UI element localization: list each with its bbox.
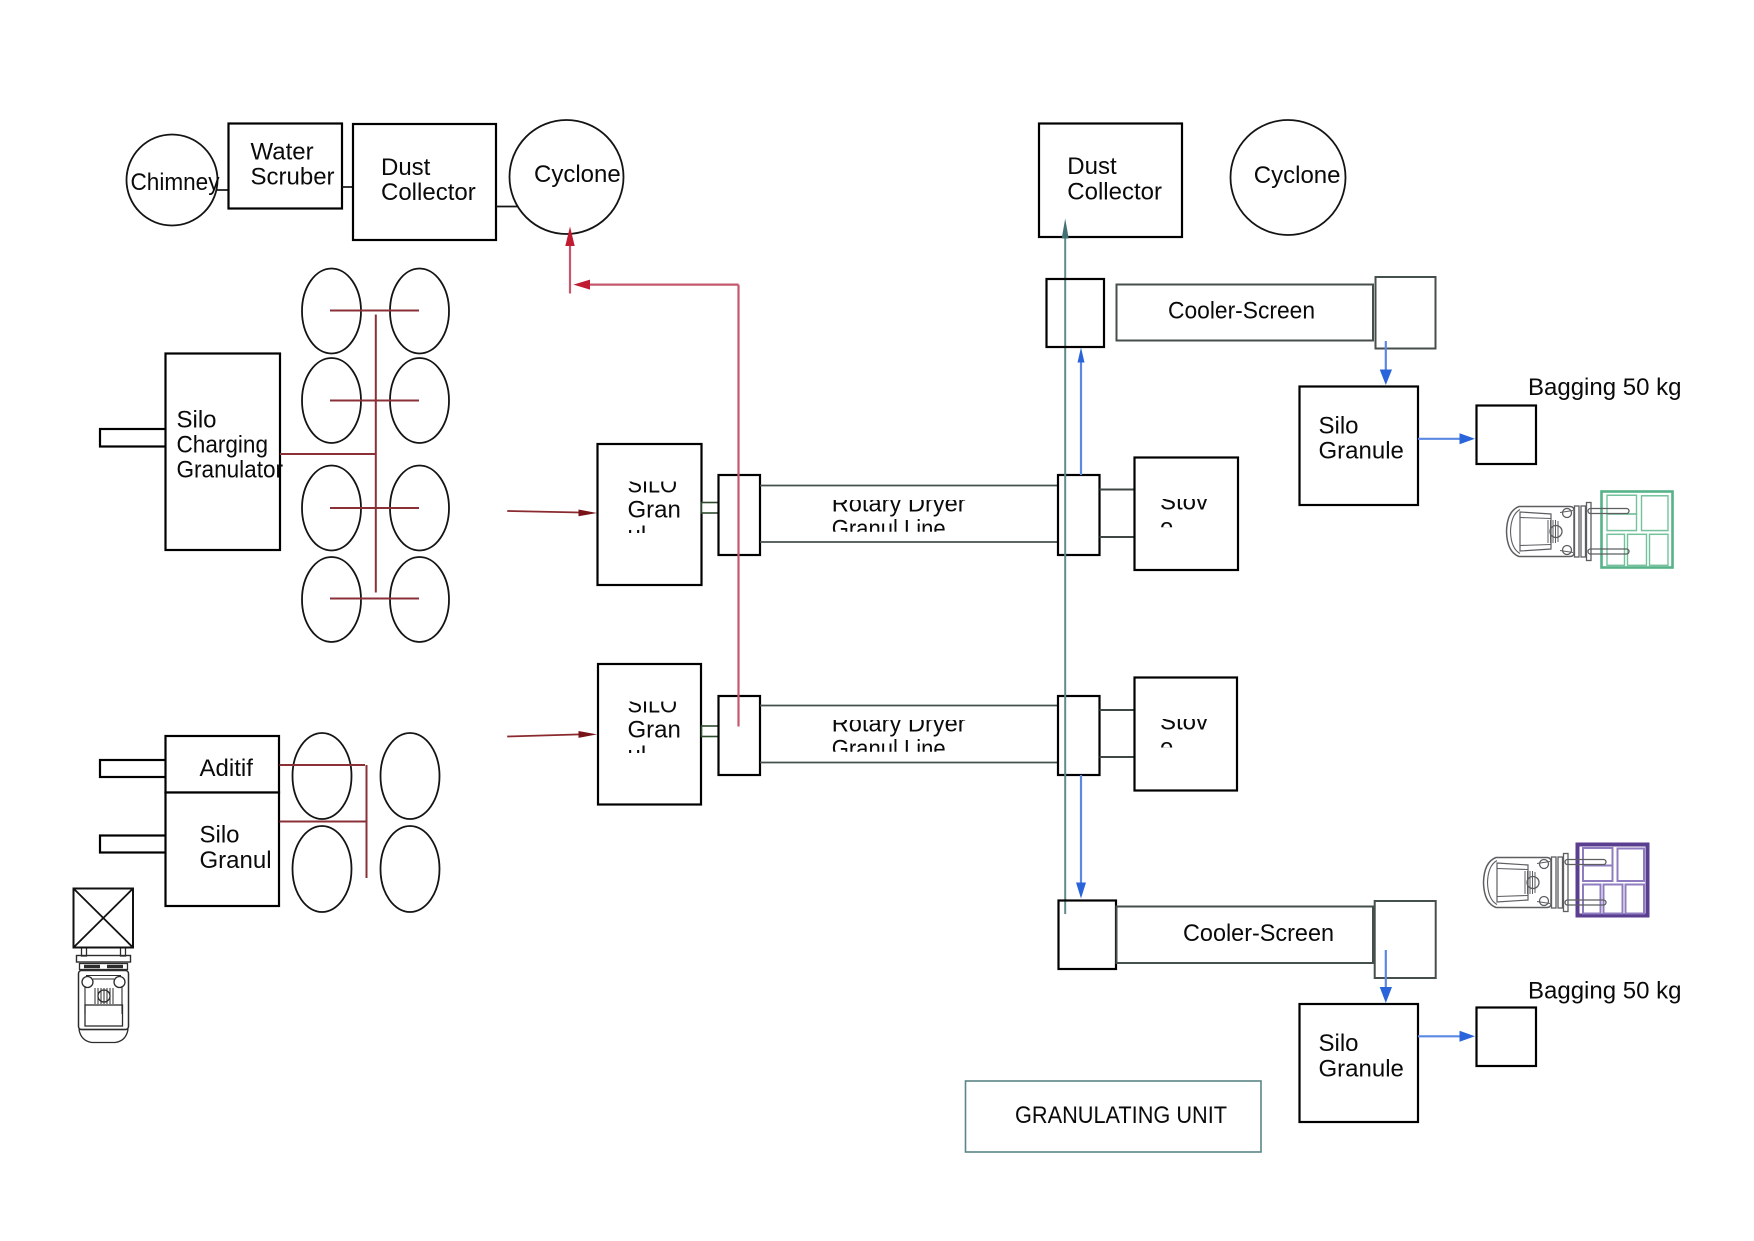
svg-text:Cyclone: Cyclone: [534, 161, 621, 188]
svg-text:GRANULATING UNIT: GRANULATING UNIT: [1015, 1102, 1227, 1129]
svg-text:Silo: Silo: [177, 407, 217, 434]
svg-text:Bagging 50 kg: Bagging 50 kg: [1528, 374, 1681, 401]
svg-text:Cyclone: Cyclone: [1254, 162, 1341, 189]
svg-text:Water: Water: [251, 138, 314, 165]
svg-text:Granule: Granule: [1319, 1055, 1404, 1082]
svg-text:Dust: Dust: [381, 154, 431, 181]
svg-text:Granul: Granul: [200, 847, 272, 874]
svg-text:Granulator: Granulator: [177, 457, 284, 484]
svg-text:Cooler-Screen: Cooler-Screen: [1183, 920, 1334, 947]
svg-text:Gran: Gran: [628, 717, 681, 744]
svg-text:Silo: Silo: [1319, 1030, 1359, 1057]
svg-text:Charging: Charging: [177, 432, 269, 459]
svg-text:Aditif: Aditif: [200, 755, 254, 782]
svg-text:Bagging 50 kg: Bagging 50 kg: [1528, 978, 1681, 1005]
svg-text:Cooler-Screen: Cooler-Screen: [1168, 298, 1315, 325]
svg-text:Gran: Gran: [628, 497, 681, 524]
svg-text:Collector: Collector: [381, 179, 476, 206]
svg-text:Chimney: Chimney: [131, 169, 220, 196]
svg-text:Silo: Silo: [1319, 412, 1359, 439]
svg-text:Granule: Granule: [1319, 438, 1404, 465]
svg-text:Scruber: Scruber: [251, 164, 335, 191]
svg-text:Silo: Silo: [200, 822, 240, 849]
svg-text:Dust: Dust: [1067, 153, 1117, 180]
svg-text:Collector: Collector: [1067, 178, 1162, 205]
